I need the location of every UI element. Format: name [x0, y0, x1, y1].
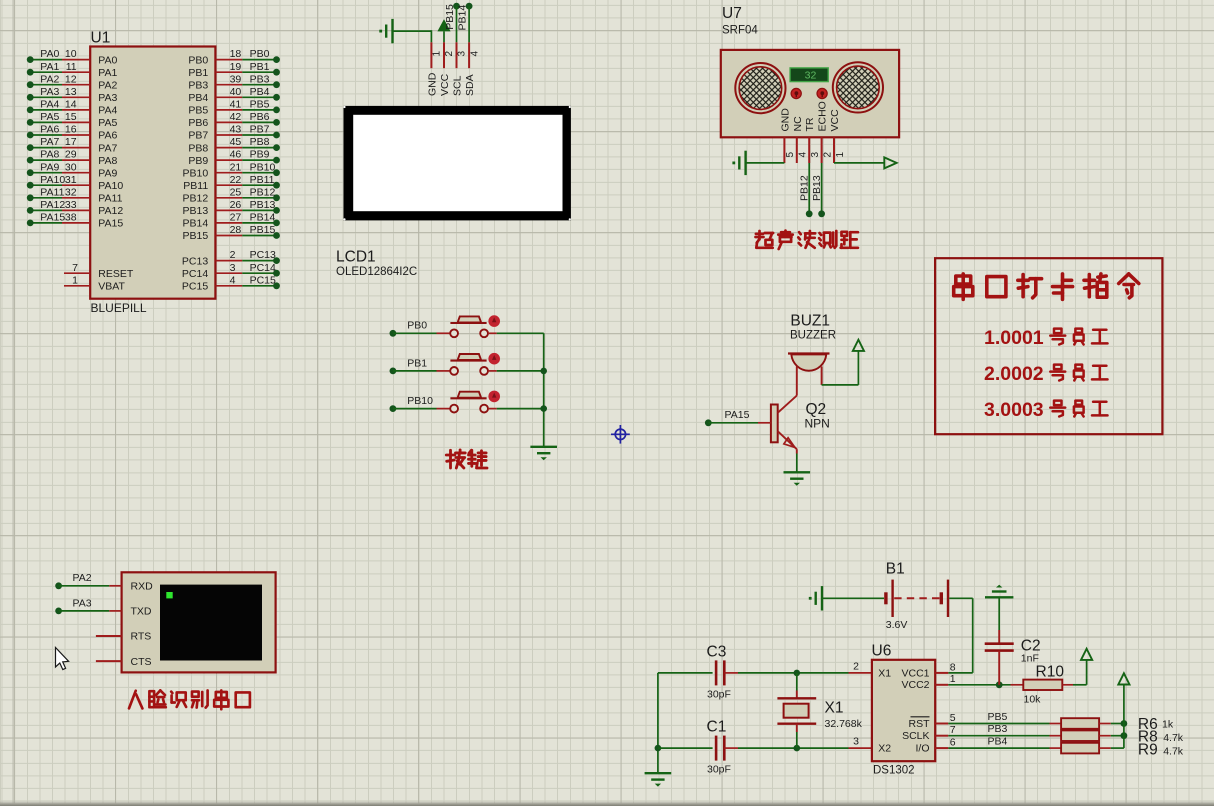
svg-text:2: 2 — [444, 51, 455, 57]
svg-text:VCC1: VCC1 — [901, 667, 929, 679]
svg-text:40: 40 — [230, 86, 242, 98]
svg-text:1: 1 — [432, 51, 443, 57]
wire C3 to U6.X1 — [724, 672, 738, 674]
wire gnd to C2 — [998, 597, 1000, 630]
svg-text:PB13: PB13 — [250, 199, 276, 211]
junction X1 bottom — [794, 745, 801, 752]
RTC ground symbol — [645, 772, 672, 774]
Q2 emitter — [778, 431, 797, 449]
node PB0 terminal — [390, 330, 397, 337]
svg-text:RST: RST — [909, 718, 931, 730]
wire button PB1 to bus — [488, 370, 497, 372]
Q2 emitter arrow — [784, 438, 795, 448]
LCD1 pin 2 stub — [443, 42, 445, 68]
U6 VCC2 stub — [935, 684, 948, 686]
svg-text:PA2: PA2 — [73, 572, 92, 584]
U1 pin PC15 (pin 4) wire+terminal — [215, 285, 242, 287]
wire IO row — [948, 747, 1049, 749]
svg-text:30: 30 — [65, 161, 77, 173]
node PA15 terminal — [705, 419, 712, 426]
capacitor C2 — [985, 642, 1014, 645]
U7 indicator LED 2 — [817, 88, 827, 98]
C2 flipped ground symbol — [985, 596, 1013, 598]
button PB10 contacts — [450, 405, 458, 413]
annotation 超声波测距 — [758, 231, 761, 239]
face module screen — [160, 585, 262, 661]
U1 pin PA5 (pin 15) wire+terminal — [30, 121, 62, 123]
svg-text:PC14: PC14 — [250, 262, 276, 274]
svg-text:PB11: PB11 — [250, 174, 275, 186]
svg-text:PB3: PB3 — [188, 79, 208, 91]
svg-text:18: 18 — [230, 48, 242, 60]
svg-text:PA4: PA4 — [40, 99, 59, 111]
svg-text:22: 22 — [230, 174, 242, 186]
svg-text:14: 14 — [65, 99, 77, 111]
wire Q2 emitter to ground — [796, 449, 798, 453]
button PB0 plunger bar — [450, 322, 486, 324]
svg-text:PC15: PC15 — [182, 281, 208, 293]
U7 pin 4 stub — [796, 137, 798, 163]
junction bus/PB10 — [540, 405, 547, 412]
svg-text:PB10: PB10 — [250, 161, 276, 173]
svg-text:4: 4 — [798, 152, 809, 158]
wire B1 to U6.VCC1 — [949, 597, 973, 599]
svg-text:29: 29 — [65, 149, 77, 161]
svg-text:PB12: PB12 — [183, 193, 209, 205]
battery B1 — [884, 592, 887, 604]
svg-text:PA2: PA2 — [40, 73, 59, 85]
wire pullup rail — [1123, 685, 1125, 749]
face module body — [122, 572, 276, 672]
svg-text:I/O: I/O — [915, 743, 929, 755]
U1 pin PB12 (pin 25) wire+terminal — [215, 197, 242, 199]
capacitor C1 — [715, 736, 718, 761]
junction bus/PB1 — [540, 368, 547, 375]
svg-text:PA11: PA11 — [40, 186, 64, 198]
svg-text:VCC: VCC — [439, 73, 451, 96]
microcontroller U1 body — [90, 47, 215, 299]
svg-text:1: 1 — [72, 274, 78, 286]
svg-text:13: 13 — [65, 86, 77, 98]
svg-text:X2: X2 — [878, 743, 891, 755]
svg-text:39: 39 — [230, 73, 242, 85]
LCD1 pin 3 stub — [456, 42, 458, 68]
svg-text:PB1: PB1 — [188, 67, 208, 79]
svg-text:PA1: PA1 — [40, 61, 59, 73]
button PB10 plunger bar — [450, 397, 486, 399]
svg-text:BLUEPILL: BLUEPILL — [91, 301, 147, 315]
svg-text:PB14: PB14 — [183, 218, 209, 230]
svg-text:PB14: PB14 — [250, 212, 276, 224]
junction left rail/C1 — [655, 745, 662, 752]
wire R10 to power — [1062, 684, 1073, 686]
svg-text:RESET: RESET — [98, 268, 134, 280]
U1 pin PB0 (pin 18) wire+terminal — [215, 59, 242, 61]
button PB1 cap — [458, 354, 482, 360]
svg-text:PA0: PA0 — [98, 54, 117, 66]
capacitor C3 — [715, 660, 718, 685]
svg-text:PC15: PC15 — [250, 274, 276, 286]
svg-text:3.0003: 3.0003 — [984, 399, 1044, 421]
wire crystal top — [796, 673, 798, 691]
svg-text:U7: U7 — [722, 5, 742, 22]
svg-text:1k: 1k — [1162, 719, 1174, 731]
U1 pin PC14 (pin 3) wire+terminal — [215, 272, 242, 274]
svg-text:4.7k: 4.7k — [1163, 746, 1184, 758]
svg-text:PB6: PB6 — [250, 111, 270, 123]
resistor R9 — [1061, 743, 1099, 754]
node PA3 terminal — [55, 608, 62, 615]
crystal X1 — [777, 697, 816, 699]
svg-text:PB12: PB12 — [798, 175, 810, 201]
svg-text:38: 38 — [65, 212, 77, 224]
svg-text:SCLK: SCLK — [902, 730, 929, 742]
wire PA15 to Q2 base — [708, 422, 758, 424]
U1 pin PA15 (pin 38) wire+terminal — [30, 222, 62, 224]
svg-text:PB6: PB6 — [188, 117, 208, 129]
wire RST row — [948, 723, 1049, 725]
svg-text:PA5: PA5 — [40, 111, 59, 123]
svg-text:3: 3 — [457, 51, 468, 57]
svg-text:PA7: PA7 — [98, 142, 117, 154]
U7 pin 2 stub — [821, 137, 823, 163]
svg-text:3.6V: 3.6V — [886, 619, 908, 631]
svg-text:2.0002: 2.0002 — [984, 363, 1044, 385]
svg-text:33: 33 — [65, 199, 77, 211]
svg-text:R9: R9 — [1138, 742, 1158, 759]
svg-text:32: 32 — [65, 186, 77, 198]
svg-text:1nF: 1nF — [1021, 653, 1039, 665]
svg-text:PA3: PA3 — [98, 92, 117, 104]
button PB10 cap — [458, 392, 482, 398]
wire C3 left — [658, 672, 713, 674]
svg-text:45: 45 — [230, 136, 242, 148]
button PB1 contacts — [450, 367, 458, 375]
resistor R10 — [1023, 680, 1062, 690]
svg-text:GND: GND — [779, 108, 791, 132]
svg-text:PB9: PB9 — [250, 149, 270, 161]
svg-text:X1: X1 — [825, 700, 844, 717]
buzzer BUZ1 body — [788, 352, 830, 354]
junction rail/R8 — [1121, 732, 1128, 739]
U1 pin PA2 (pin 12) wire+terminal — [30, 84, 62, 86]
svg-text:U1: U1 — [91, 30, 111, 47]
button PB0 cap — [458, 316, 482, 322]
svg-text:PB13: PB13 — [811, 175, 823, 201]
wire PB10 to button — [393, 408, 437, 410]
U1 pin RESET (pin 7) stub — [64, 272, 90, 274]
svg-text:17: 17 — [65, 136, 77, 148]
U6 VCC1 stub — [935, 672, 948, 674]
U1 pin PA0 (pin 10) wire+terminal — [30, 59, 62, 61]
U7 power arrow — [884, 157, 896, 168]
U1 pin PA6 (pin 16) wire+terminal — [30, 134, 62, 136]
svg-text:C3: C3 — [707, 644, 727, 661]
svg-text:PC13: PC13 — [182, 255, 208, 267]
svg-text:PA15: PA15 — [98, 218, 123, 230]
svg-text:3: 3 — [230, 262, 236, 274]
svg-text:PA6: PA6 — [98, 130, 117, 142]
svg-text:VCC: VCC — [829, 109, 841, 132]
svg-text:6: 6 — [950, 737, 956, 749]
wire PA2 to RXD — [59, 585, 110, 587]
node PB15 terminal — [453, 3, 460, 10]
button PB10 actuator — [488, 391, 500, 403]
svg-text:12: 12 — [65, 73, 77, 85]
annotation 按键 — [449, 450, 452, 468]
U1 pin PB8 (pin 45) wire+terminal — [215, 147, 242, 149]
svg-text:PB4: PB4 — [188, 92, 208, 104]
U1 pin PB1 (pin 19) wire+terminal — [215, 71, 242, 73]
svg-text:PC14: PC14 — [182, 268, 208, 280]
transistor Q2 base bar — [771, 405, 778, 443]
B1 ground symbol — [821, 586, 823, 610]
svg-text:PA2: PA2 — [98, 79, 117, 91]
svg-text:SRF04: SRF04 — [722, 25, 758, 37]
wire U7 TR to PB12 — [808, 163, 810, 214]
wire SCLK row — [948, 735, 1049, 737]
svg-text:PB14: PB14 — [456, 5, 468, 31]
svg-text:31: 31 — [65, 174, 77, 186]
svg-text:PA9: PA9 — [40, 161, 59, 173]
face module green pixel — [166, 592, 172, 598]
svg-text:PB5: PB5 — [250, 99, 270, 111]
svg-text:8: 8 — [950, 661, 956, 673]
node PB1 terminal — [390, 368, 397, 375]
svg-text:PB15: PB15 — [183, 230, 209, 242]
U1 pin PA10 (pin 31) wire+terminal — [30, 184, 62, 186]
svg-text:NPN: NPN — [805, 417, 830, 431]
svg-text:7: 7 — [72, 262, 78, 274]
U1 pin PB7 (pin 43) wire+terminal — [215, 134, 242, 136]
svg-text:PA15: PA15 — [40, 212, 65, 224]
svg-text:BUZZER: BUZZER — [790, 330, 836, 342]
U1 pin PA12 (pin 33) wire+terminal — [30, 209, 62, 211]
svg-text:TR: TR — [804, 117, 816, 131]
svg-text:PA10: PA10 — [40, 174, 65, 186]
U1 pin PA4 (pin 14) wire+terminal — [30, 109, 62, 111]
svg-text:VBAT: VBAT — [98, 281, 125, 293]
svg-text:PB15: PB15 — [444, 4, 456, 30]
U6 pin 6 stub — [935, 747, 948, 749]
wire PB15 to LCD pin3 — [456, 6, 458, 42]
U7 ground symbol — [744, 151, 746, 175]
U1 pin PA3 (pin 13) wire+terminal — [30, 96, 62, 98]
svg-text:VCC2: VCC2 — [901, 679, 929, 691]
svg-text:NC: NC — [792, 116, 804, 132]
svg-text:28: 28 — [230, 224, 242, 236]
svg-text:15: 15 — [65, 111, 77, 123]
svg-text:C1: C1 — [707, 719, 727, 736]
U7 digital display — [790, 68, 828, 82]
svg-text:PA3: PA3 — [73, 597, 92, 609]
svg-text:PB12: PB12 — [250, 186, 276, 198]
svg-text:3: 3 — [810, 152, 821, 158]
wire gnd to LCD pin1 — [393, 30, 432, 32]
U1 pin PA7 (pin 17) wire+terminal — [30, 147, 62, 149]
wire button PB0 to bus — [488, 332, 497, 334]
svg-text:PB9: PB9 — [188, 155, 208, 167]
svg-text:2: 2 — [822, 152, 833, 158]
svg-text:PB1: PB1 — [407, 357, 427, 369]
node PB12 terminal — [806, 210, 813, 217]
svg-text:PA4: PA4 — [98, 105, 117, 117]
svg-text:2: 2 — [230, 249, 236, 261]
LCD1 pin 1 stub — [430, 42, 432, 68]
svg-text:32.768k: 32.768k — [825, 718, 863, 730]
svg-text:PA7: PA7 — [40, 136, 59, 148]
U1 pin PB9 (pin 46) wire+terminal — [215, 159, 242, 161]
svg-text:PB4: PB4 — [988, 736, 1008, 748]
wire crystal bottom — [796, 724, 798, 732]
svg-text:PA11: PA11 — [98, 193, 122, 205]
svg-text:DS1302: DS1302 — [873, 765, 915, 777]
U1 pin PB6 (pin 42) wire+terminal — [215, 121, 242, 123]
svg-text:30pF: 30pF — [707, 764, 731, 776]
RTC U6 body — [872, 660, 935, 761]
svg-text:2: 2 — [853, 661, 859, 673]
U7 pin 1 stub — [833, 137, 835, 163]
svg-text:Q2: Q2 — [806, 401, 827, 418]
junction X1 top — [794, 670, 801, 677]
pullup power arrow — [1118, 673, 1129, 684]
svg-text:1: 1 — [835, 152, 846, 158]
svg-text:PA8: PA8 — [40, 149, 59, 161]
U7 pin 5 stub — [783, 137, 785, 163]
mouse cursor — [56, 648, 69, 670]
node PB14 terminal — [466, 3, 473, 10]
svg-text:PB10: PB10 — [183, 167, 209, 179]
U1 pin PB11 (pin 22) wire+terminal — [215, 184, 242, 186]
origin crosshair — [611, 425, 630, 444]
U1 pin PA8 (pin 29) wire+terminal — [30, 159, 62, 161]
svg-text:21: 21 — [230, 161, 242, 173]
wire R9 to rail — [1099, 747, 1111, 749]
svg-text:3: 3 — [853, 736, 859, 748]
U1 pin PB10 (pin 21) wire+terminal — [215, 172, 242, 174]
svg-text:PA5: PA5 — [98, 117, 117, 129]
LCD1 display screen — [353, 115, 562, 211]
svg-text:4: 4 — [469, 51, 480, 57]
svg-text:PA9: PA9 — [98, 167, 117, 179]
svg-text:PA12: PA12 — [98, 205, 123, 217]
svg-text:PB0: PB0 — [250, 48, 270, 60]
wire U7 VCC to power — [834, 162, 884, 164]
wire button PB10 to bus — [488, 408, 497, 410]
junction rail/R6 — [1121, 720, 1128, 727]
svg-text:19: 19 — [230, 61, 242, 73]
svg-text:PA10: PA10 — [98, 180, 123, 192]
svg-text:PA3: PA3 — [40, 86, 59, 98]
svg-text:LCD1: LCD1 — [336, 249, 376, 266]
svg-text:PB1: PB1 — [250, 61, 270, 73]
svg-text:7: 7 — [950, 724, 956, 736]
wire VCC2 to R10 — [948, 684, 1010, 686]
svg-text:PB8: PB8 — [188, 142, 208, 154]
svg-text:PB11: PB11 — [183, 180, 208, 192]
LCD1 pin 4 stub — [468, 42, 470, 68]
svg-text:PB0: PB0 — [407, 320, 427, 332]
svg-text:PB5: PB5 — [988, 711, 1008, 723]
svg-text:SDA: SDA — [464, 74, 476, 96]
svg-text:43: 43 — [230, 124, 242, 136]
U1 pin PC13 (pin 2) wire+terminal — [215, 260, 242, 262]
wire button bus — [543, 333, 545, 447]
U1 pin PB13 (pin 26) wire+terminal — [215, 209, 242, 211]
ultrasonic sensor U7 body — [721, 50, 899, 137]
resistor R8 — [1061, 730, 1099, 741]
svg-text:PA6: PA6 — [40, 124, 59, 136]
svg-text:27: 27 — [230, 212, 242, 224]
svg-text:RTS: RTS — [131, 631, 152, 643]
U1 pin PB4 (pin 40) wire+terminal — [215, 96, 242, 98]
svg-text:PB4: PB4 — [250, 86, 270, 98]
U7 indicator LED 1 — [791, 88, 801, 98]
svg-text:PA1: PA1 — [98, 67, 117, 79]
buttons ground symbol — [530, 446, 557, 448]
buzzer right lead — [821, 367, 823, 385]
svg-text:PB7: PB7 — [250, 124, 270, 136]
node PB13 terminal — [818, 210, 825, 217]
wire U7 GND to ground — [746, 162, 785, 164]
U1 pin PB5 (pin 41) wire+terminal — [215, 109, 242, 111]
wire buzzer to power — [822, 384, 859, 386]
wire R8 to rail — [1099, 735, 1111, 737]
svg-text:PB7: PB7 — [188, 130, 208, 142]
svg-text:ECHO: ECHO — [817, 101, 829, 131]
U6 pin 7 stub — [935, 735, 948, 737]
svg-text:1.0001: 1.0001 — [984, 327, 1044, 349]
svg-text:5: 5 — [785, 152, 796, 158]
svg-text:U6: U6 — [872, 643, 892, 660]
svg-text:PB13: PB13 — [183, 205, 209, 217]
svg-text:10k: 10k — [1024, 694, 1042, 706]
face module RTS stub — [96, 635, 122, 637]
button PB0 actuator — [488, 315, 500, 327]
svg-text:X1: X1 — [878, 667, 891, 679]
svg-text:PB10: PB10 — [407, 395, 433, 407]
junction C2/VCC2 — [996, 681, 1003, 688]
svg-text:OLED12864I2C: OLED12864I2C — [336, 266, 417, 278]
Q2 collector — [778, 396, 797, 413]
svg-text:PB3: PB3 — [988, 723, 1008, 735]
LCD1 power arrow (VCC) — [437, 19, 450, 31]
svg-text:11: 11 — [66, 61, 77, 73]
svg-text:42: 42 — [230, 111, 242, 123]
annotation 人脸识别串口 — [129, 691, 136, 709]
svg-text:5: 5 — [950, 712, 956, 724]
instruction box frame — [935, 258, 1162, 434]
buzzer power arrow — [853, 340, 864, 351]
wire PB0 to button — [393, 332, 437, 334]
svg-text:PA12: PA12 — [40, 199, 65, 211]
svg-text:BUZ1: BUZ1 — [790, 313, 830, 330]
U1 pin PA1 (pin 11) wire+terminal — [30, 71, 62, 73]
wire C1 left — [658, 747, 713, 749]
U7 right transducer — [833, 62, 883, 112]
LCD1 corner marks — [343, 106, 345, 108]
U1 pin PB15 (pin 28) wire+terminal — [215, 235, 242, 237]
LCD1 display body — [344, 106, 571, 220]
R10 power arrow — [1081, 649, 1092, 660]
Q2 ground symbol — [784, 471, 811, 473]
svg-text:16: 16 — [65, 124, 77, 136]
svg-text:PB8: PB8 — [250, 136, 270, 148]
svg-text:TXD: TXD — [131, 606, 152, 618]
svg-text:26: 26 — [230, 199, 242, 211]
svg-text:25: 25 — [230, 186, 242, 198]
wire U7 ECHO to PB13 — [821, 163, 823, 214]
